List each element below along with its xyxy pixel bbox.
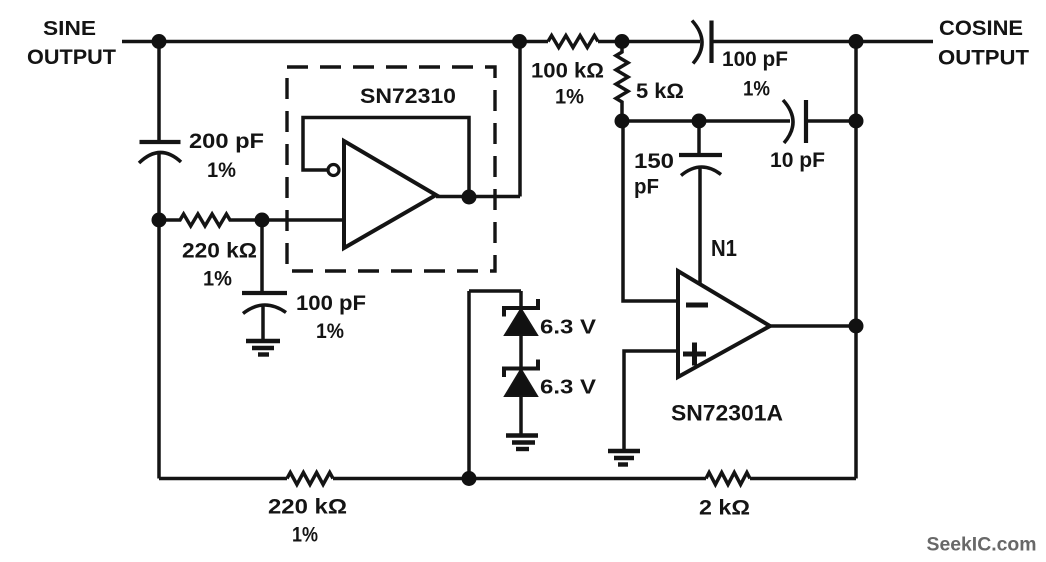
node junction dot top-right <box>849 34 864 49</box>
capacitor C3 100 pF (top rail, straight plate) <box>709 21 713 64</box>
resistor R5 2 kOhm (bottom) <box>706 473 750 485</box>
svg-text:OUTPUT: OUTPUT <box>27 46 116 69</box>
svg-text:100 pF: 100 pF <box>722 47 788 71</box>
wire top rail right segment <box>712 40 934 44</box>
svg-text:150: 150 <box>634 149 674 173</box>
svg-text:SINE: SINE <box>43 18 96 40</box>
capacitor C4 150 pF (straight plate) <box>679 153 722 157</box>
wire 100 pF shunt to ground <box>261 304 265 340</box>
capacitor C4 150 pF (curved plate) <box>681 167 721 176</box>
wire second rail right <box>806 119 856 123</box>
svg-text:SeekIC.com: SeekIC.com <box>927 535 1037 556</box>
svg-text:5 kΩ: 5 kΩ <box>636 79 684 103</box>
wire bottom rail right <box>750 477 856 481</box>
wire 100 pF shunt upper <box>260 220 264 293</box>
ground (below C2) <box>246 341 280 355</box>
minus sign U2 <box>686 303 708 308</box>
zener diode D2 cathode bar <box>504 360 538 378</box>
node junction dot second rail right <box>849 114 864 129</box>
wire feedback loop U1 <box>303 118 469 198</box>
svg-text:COSINE: COSINE <box>939 17 1023 40</box>
wire between zeners <box>519 335 523 369</box>
svg-text:200 pF: 200 pF <box>189 129 264 153</box>
capacitor C1 200 pF (curved plate) <box>139 152 181 163</box>
svg-text:1%: 1% <box>207 159 236 182</box>
svg-text:SN72301A: SN72301A <box>671 401 783 426</box>
wire left vertical upper <box>157 42 161 143</box>
node junction dot 5k top <box>615 34 630 49</box>
wire right vertical <box>854 42 858 479</box>
dashed box SN72310 <box>287 67 495 271</box>
svg-text:OUTPUT: OUTPUT <box>938 47 1029 70</box>
capacitor C2 100 pF (curved plate) <box>243 305 286 314</box>
svg-text:220 kΩ: 220 kΩ <box>182 239 257 263</box>
wire left vertical lower <box>157 153 161 479</box>
svg-text:220 kΩ: 220 kΩ <box>268 495 347 519</box>
wire 5k junction down to inverting input <box>623 121 678 301</box>
wire second rail left <box>622 119 700 123</box>
wire non-inverting input U2 to ground <box>624 351 678 450</box>
svg-text:100 kΩ: 100 kΩ <box>531 59 604 83</box>
op-amp U1 SN72310 triangle <box>344 141 436 248</box>
resistor R2 100 kOhm (top rail) <box>548 36 598 48</box>
wire zener top lead <box>519 291 523 308</box>
capacitor C1 200 pF (straight plate) <box>140 140 181 144</box>
wire U1 output up to top rail <box>518 42 522 197</box>
resistor R3 5 kOhm (vertical) <box>616 42 628 122</box>
svg-text:N1: N1 <box>711 235 737 261</box>
node junction dot U2 output <box>849 319 864 334</box>
resistor R4 220 kOhm (bottom) <box>287 473 333 485</box>
wire zener branch horizontal <box>469 289 521 293</box>
wire U2 output <box>770 324 856 328</box>
zener diode D1 cathode bar <box>504 299 538 317</box>
wire zener bottom lead <box>519 396 523 436</box>
svg-text:1%: 1% <box>292 524 318 547</box>
svg-text:6.3 V: 6.3 V <box>540 377 597 399</box>
capacitor C5 10 pF (straight plate) <box>804 100 808 143</box>
plus sign U2 <box>683 343 706 366</box>
zener diode D2 triangle <box>505 370 537 397</box>
node junction dot input left <box>152 213 167 228</box>
node junction dot U1 output to rail <box>512 34 527 49</box>
wire top rail middle segment <box>598 40 700 44</box>
node junction dot top-left <box>152 34 167 49</box>
svg-text:pF: pF <box>634 175 659 199</box>
svg-text:10 pF: 10 pF <box>770 148 825 172</box>
svg-text:1%: 1% <box>555 86 584 109</box>
wire non-inverting input to U1 <box>262 218 344 222</box>
capacitor C5 10 pF (curved plate) <box>783 100 793 143</box>
svg-text:SN72310: SN72310 <box>360 85 456 108</box>
wire bottom rail left <box>159 477 287 481</box>
zener diode D1 triangle <box>505 309 537 335</box>
node junction dot bottom rail <box>462 471 477 486</box>
wire 150 pF upper <box>697 121 701 155</box>
svg-text:1%: 1% <box>316 320 344 343</box>
wire bottom rail middle <box>333 477 706 481</box>
svg-text:6.3 V: 6.3 V <box>540 317 597 339</box>
node junction dot 150pF top <box>692 114 707 129</box>
wire U1 output <box>436 195 520 199</box>
ground (below zeners) <box>506 436 538 450</box>
op-amp U2 SN72301A triangle <box>678 271 770 377</box>
svg-text:2 kΩ: 2 kΩ <box>699 496 750 520</box>
node junction dot 5k bottom <box>615 114 630 129</box>
wire second rail middle <box>700 119 790 123</box>
capacitor C3 100 pF (top rail, curved plate) <box>692 21 702 64</box>
wire zener branch vertical <box>467 291 471 479</box>
wire node N1 down to U2 <box>698 166 702 285</box>
svg-text:1%: 1% <box>203 268 232 291</box>
node junction dot input right <box>255 213 270 228</box>
ground (U2 non-inverting input) <box>608 451 640 465</box>
inverter bubble U1 <box>328 165 339 176</box>
capacitor C2 100 pF (straight plate) <box>242 291 287 295</box>
node junction dot U1 output <box>462 190 477 205</box>
wire top rail left segment <box>122 40 548 44</box>
svg-text:100 pF: 100 pF <box>296 292 366 315</box>
resistor R1 220 kOhm (input) <box>159 214 262 226</box>
svg-text:1%: 1% <box>743 78 770 101</box>
